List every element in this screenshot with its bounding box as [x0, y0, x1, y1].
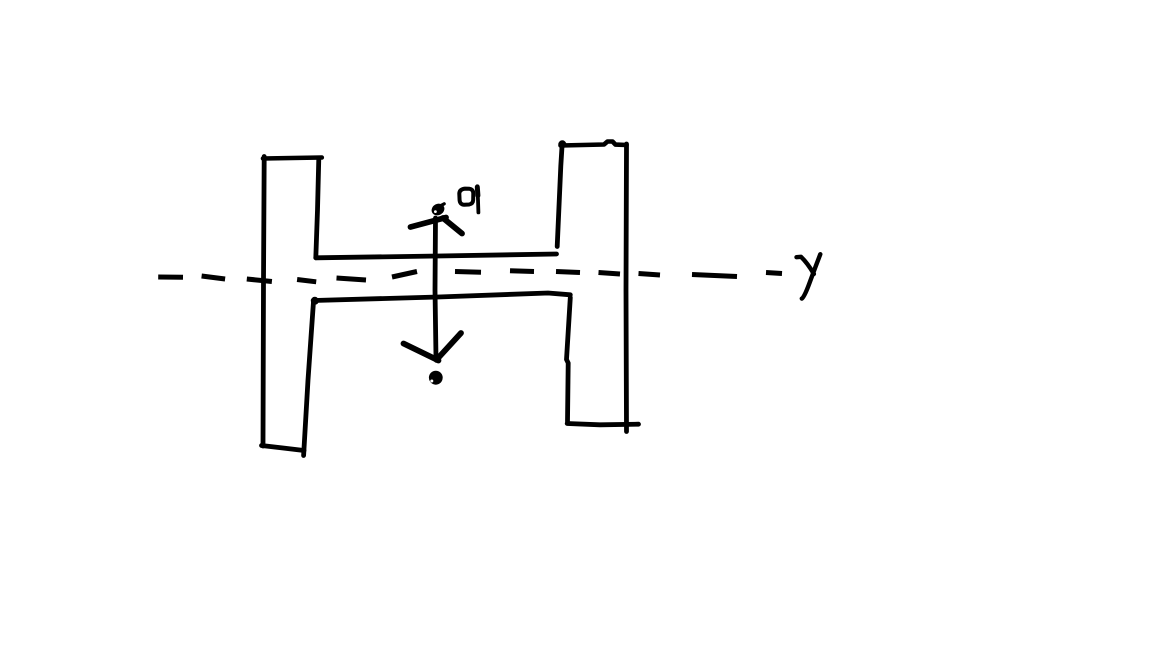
arrow top dot	[430, 201, 447, 217]
load label q stem top emphasis	[475, 187, 481, 196]
right flange top-left corner dot	[558, 140, 566, 148]
right flange top edge	[561, 142, 627, 146]
left flange right edge lower	[304, 302, 314, 456]
right flange bottom edge	[567, 424, 638, 425]
right flange right edge	[624, 144, 629, 432]
left flange left edge	[263, 157, 264, 447]
arrow bottom dot	[429, 371, 443, 385]
web bottom edge start dot	[311, 297, 319, 305]
left flange top edge	[263, 158, 322, 159]
load label q bowl	[459, 189, 473, 205]
arrow top-right barb	[443, 218, 462, 234]
dashed axis y-y	[158, 271, 782, 282]
left flange bottom edge	[262, 446, 305, 451]
load label q stem	[477, 186, 478, 212]
arrow bottom-left barb	[404, 344, 439, 361]
axis label y	[797, 254, 821, 298]
right flange left edge upper	[557, 147, 562, 247]
arrow bottom-right barb	[437, 333, 462, 360]
web top edge	[316, 254, 557, 258]
web bottom edge	[314, 293, 570, 301]
right flange left edge lower	[567, 298, 571, 422]
left flange right edge upper	[316, 158, 319, 258]
arrow top-left barb	[411, 218, 447, 228]
arrow shaft	[435, 218, 436, 358]
